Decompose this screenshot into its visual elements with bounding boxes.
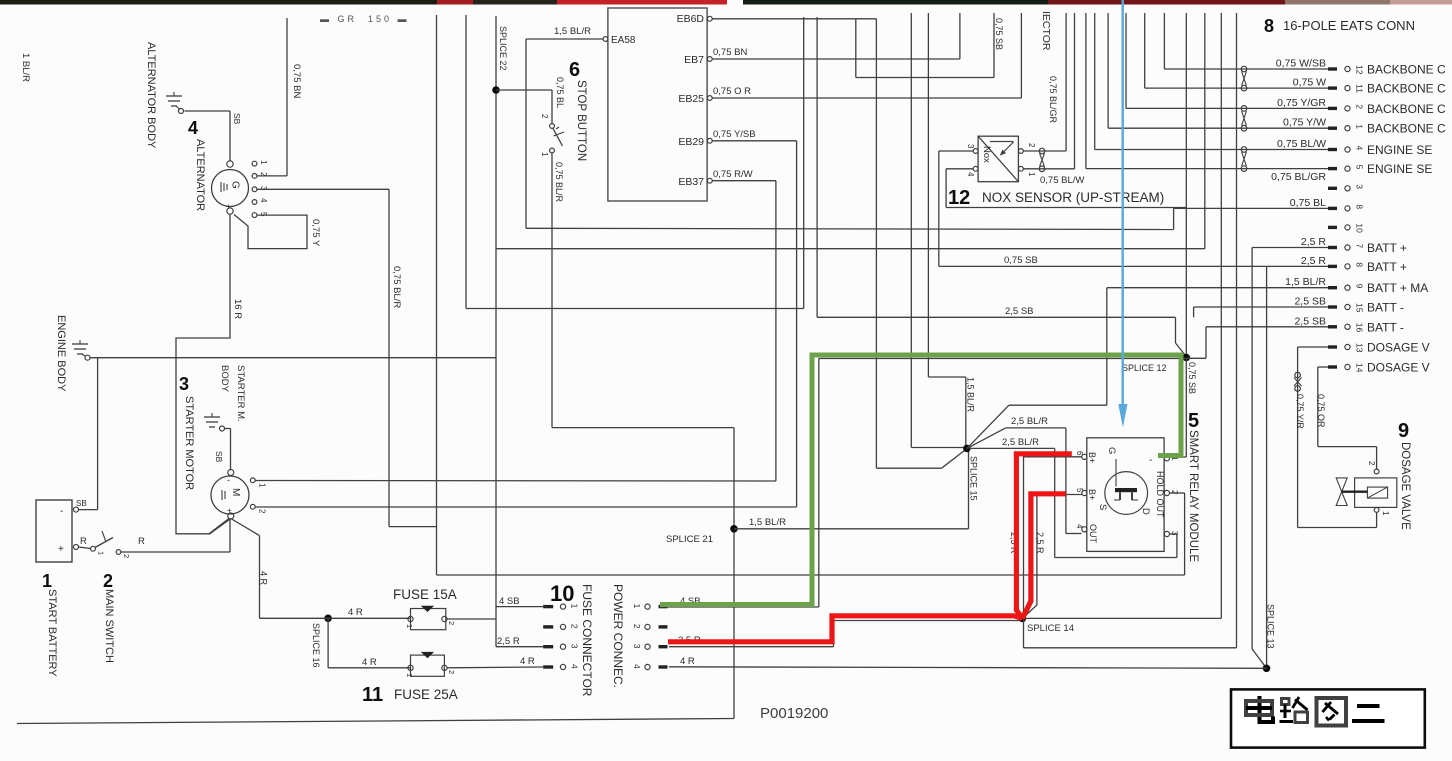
connector J8 pin 2 row [1277, 97, 1446, 116]
wire relay pin2 long return [1170, 493, 1185, 575]
wire 0,75 SB NOX pin3 route [939, 151, 1267, 266]
wire starter pin 2 to EB29 (0,75 Y/SB) [255, 506, 796, 508]
relay pin 1 - [1149, 455, 1179, 466]
svg-text:0,75 Y/W: 0,75 Y/W [1283, 117, 1326, 129]
highlight wire red from power pin3 [668, 616, 1022, 642]
wire bottom rail [17, 719, 734, 724]
svg-text:BATT -: BATT - [1367, 301, 1404, 315]
svg-text:D: D [1140, 508, 1151, 515]
svg-text:2: 2 [1367, 461, 1376, 466]
splice SPLICE 21 [666, 428, 738, 719]
wire 4 SB under green [659, 359, 1186, 608]
svg-text:8: 8 [1355, 204, 1365, 209]
svg-text:8: 8 [1264, 16, 1274, 36]
connector J8 pin 8 row [1290, 197, 1365, 211]
svg-text:3: 3 [570, 644, 580, 649]
pin EB7 [707, 57, 712, 62]
svg-text:R: R [138, 536, 145, 547]
svg-text:12: 12 [1355, 65, 1365, 75]
svg-text:BATT +: BATT + [1367, 260, 1407, 274]
svg-text:2,5 SB: 2,5 SB [1294, 315, 1326, 327]
wire 0,75 SB trunk to splice 12 [1185, 13, 1187, 356]
svg-text:EA58: EA58 [611, 35, 636, 46]
svg-text:1: 1 [570, 604, 580, 609]
svg-text:4 R: 4 R [259, 571, 269, 586]
connector J8 pin 9 row [1285, 276, 1428, 295]
wire 2,5 R pin8 to splice 13 [1267, 266, 1328, 668]
svg-text:BATT -: BATT - [1367, 320, 1404, 334]
svg-text:1: 1 [1027, 172, 1036, 177]
relay pin 6 B+ [1075, 451, 1097, 463]
svg-text:SB: SB [76, 499, 87, 508]
wire 0,75 R/W EB37 [712, 169, 776, 481]
svg-text:BATT +: BATT + [1367, 241, 1407, 255]
twisted pair rows 12-11 [1241, 66, 1247, 91]
pin EB6D [707, 16, 712, 21]
svg-text:EB29: EB29 [678, 136, 704, 148]
svg-text:16-POLE EATS CONN: 16-POLE EATS CONN [1283, 18, 1415, 33]
svg-text:2: 2 [258, 509, 267, 514]
wire fuse25 out 4 R [447, 656, 543, 668]
svg-text:2: 2 [122, 554, 131, 558]
wire 1,5 BL/R BATT+M to splice 15 [967, 288, 1329, 449]
wire 0,75 BN EB7 [712, 13, 960, 59]
svg-text:NOX SENSOR (UP-STREAM): NOX SENSOR (UP-STREAM) [982, 190, 1164, 205]
wire pin11 feed [1145, 13, 1328, 88]
svg-text:5: 5 [1075, 488, 1084, 493]
wire 0,75 BL/GR NOX pin2 up [1023, 13, 1066, 151]
starter pin 1 [250, 478, 266, 488]
svg-text:2,5 BL/R: 2,5 BL/R [1002, 437, 1039, 448]
svg-text:5: 5 [1355, 165, 1365, 170]
svg-text:1,5 BL/R: 1,5 BL/R [966, 377, 976, 413]
svg-text:S: S [1097, 504, 1108, 510]
svg-text:0,75 BN: 0,75 BN [291, 64, 302, 98]
connector J8 pin 3 row [1328, 184, 1365, 191]
svg-text:13: 13 [1355, 343, 1365, 353]
NOX pin 1 [1019, 166, 1037, 177]
switch S2 MAIN SWITCH [80, 531, 145, 663]
label 12 NOX SENSOR (UP-STREAM) [948, 187, 1164, 209]
alternator pin 4 [252, 198, 268, 204]
wire 4 R power pin4 to splice 13 [669, 656, 1267, 668]
svg-text:1: 1 [1355, 124, 1365, 129]
svg-text:2,5 BL/R: 2,5 BL/R [1011, 416, 1048, 427]
svg-text:16: 16 [1355, 323, 1365, 333]
svg-text:EB37: EB37 [678, 176, 704, 188]
wire trunk x1221 to splice 14 [1220, 13, 1222, 618]
svg-text:4: 4 [1355, 146, 1365, 151]
svg-text:0,75 BL/W: 0,75 BL/W [1277, 138, 1326, 150]
highlight wire red to relay pin5 [1022, 494, 1065, 619]
svg-text:-: - [60, 506, 63, 517]
svg-text:-: - [227, 475, 230, 485]
ground ENGINE BODY [55, 315, 90, 392]
svg-text:P0019200: P0019200 [760, 705, 828, 722]
svg-text:0,75 Y/SB: 0,75 Y/SB [713, 129, 756, 140]
svg-text:+: + [58, 544, 64, 555]
svg-text:0,75 O R: 0,75 O R [713, 86, 751, 97]
svg-text:3: 3 [1355, 184, 1365, 189]
svg-text:0,75 SB: 0,75 SB [994, 18, 1004, 50]
svg-text:12: 12 [948, 187, 970, 209]
connector J8 pin 16 row [1294, 315, 1403, 334]
connector J8 pin 5 row [1328, 162, 1432, 176]
wire 0,75 Y/R pin13 to valve [1295, 347, 1377, 528]
connector J10 label [550, 581, 625, 697]
svg-text:7: 7 [1355, 244, 1365, 249]
alternator pin 3 [252, 186, 268, 192]
svg-text:1: 1 [405, 673, 414, 677]
svg-text:5: 5 [1188, 410, 1199, 432]
relay pin 3 OUT [1164, 531, 1179, 537]
splice SPLICE 14 [1019, 615, 1074, 634]
svg-text:HOLD OUT: HOLD OUT [1155, 471, 1165, 518]
svg-text:2,5 R: 2,5 R [497, 636, 520, 647]
wire 2,5 BL/R to relay pin3 [969, 437, 1177, 558]
wire 0,75 SB splice12 to relay pin1 [1158, 358, 1197, 458]
svg-text:2: 2 [632, 624, 642, 629]
wire 2,5 SB pin16 to splice 12 [1186, 327, 1328, 359]
wire starter plus fan left [209, 519, 231, 535]
svg-text:11: 11 [1355, 84, 1365, 93]
svg-text:10: 10 [550, 581, 574, 606]
splice SPLICE 13 [1263, 604, 1276, 672]
wire 4 R splice16 to fuse15 [260, 607, 411, 618]
svg-text:2: 2 [1355, 104, 1365, 109]
svg-text:ENGINE BODY: ENGINE BODY [55, 315, 67, 392]
svg-text:FUSE 25A: FUSE 25A [394, 687, 458, 702]
top video bar (screenshot artifact) [0, 0, 1452, 5]
svg-text:10: 10 [1355, 223, 1365, 233]
alternator pin 1 [252, 160, 268, 166]
svg-text:START BATTERY: START BATTERY [46, 589, 58, 677]
twisted pair NOX [1039, 148, 1045, 171]
svg-text:0,75 OR: 0,75 OR [1316, 394, 1326, 428]
svg-text:9: 9 [1398, 420, 1409, 442]
connector J8 pin 7 row [1301, 236, 1407, 255]
wire stop button pin1 to splice 21 [552, 153, 734, 428]
svg-text:2,5 R: 2,5 R [1301, 255, 1327, 267]
wire trunk x911 to splice 15 [911, 13, 963, 448]
pin EB25 [707, 96, 712, 101]
svg-text:4: 4 [1075, 524, 1084, 529]
wire 0,75 BL/W NOX pin1 up [1023, 13, 1084, 186]
wire 2,5 R pin7 to splice 13 [1252, 248, 1328, 669]
NOX pin 3 [966, 144, 978, 153]
wire NOX pin4 under label [946, 169, 1186, 208]
wire 0,75 Y/SB EB29 [712, 129, 796, 507]
label 0,75 BL/GR vertical [1048, 76, 1058, 124]
wire 0,75 Y loop from alternator pin 5 [234, 215, 321, 249]
svg-text:4: 4 [188, 118, 198, 138]
starter pin 2 [250, 504, 266, 514]
svg-text:4: 4 [259, 198, 268, 203]
wire pin4 feed [1095, 13, 1328, 150]
highlight wire green 4 SB route [660, 355, 1181, 605]
svg-text:0,75 Y/R: 0,75 Y/R [1295, 394, 1305, 429]
svg-text:1: 1 [632, 604, 642, 609]
svg-text:0,75 W: 0,75 W [1293, 77, 1326, 89]
svg-text:EB25: EB25 [678, 93, 704, 105]
wire engine body ground to splice 22 line [91, 357, 497, 359]
wire main switch to starter motor [121, 519, 230, 553]
splice SPLICE 12 [1122, 354, 1190, 373]
wire 4 R splice16 to fuse25 [328, 618, 410, 668]
battery B1 START BATTERY [36, 500, 79, 677]
svg-text:0,75 BL/W: 0,75 BL/W [1040, 175, 1084, 186]
wire long horizontal splice22 to trunk [496, 13, 1205, 249]
wire 4 R starter plus to splice 16 [231, 519, 269, 619]
connector J8 pin 11 row [1293, 77, 1446, 96]
svg-text:DOSAGE VALVE: DOSAGE VALVE [1399, 442, 1411, 530]
splice SPLICE 22 [492, 26, 508, 94]
connector J8 16-POLE EATS label [1264, 16, 1415, 36]
svg-text:4 R: 4 R [680, 656, 695, 667]
svg-text:1: 1 [97, 551, 106, 555]
svg-text:2: 2 [1027, 143, 1036, 148]
relay pin 5 B+ [1075, 488, 1097, 500]
wire fuse15 out [447, 618, 496, 620]
svg-text:9: 9 [1355, 284, 1365, 289]
twisted pair rows 2-1 [1241, 106, 1247, 131]
connector J8 pin 8 row [1301, 255, 1407, 274]
label IECTOR vertical [1040, 11, 1052, 51]
svg-text:STARTER MOTOR: STARTER MOTOR [183, 396, 195, 490]
svg-text:ALTERNATOR BODY: ALTERNATOR BODY [145, 42, 157, 149]
svg-text:0,75 BL/R: 0,75 BL/R [554, 162, 564, 203]
svg-text:0,75 SB: 0,75 SB [1187, 362, 1197, 394]
wire splice22 to stop button pin2 [496, 90, 552, 124]
twisted pair rows 4-5 [1241, 147, 1247, 172]
wire 0,75 BN from alternator pin 2 up [257, 18, 302, 176]
connector J8 pin 10 row [1328, 223, 1365, 233]
svg-text:BACKBONE C: BACKBONE C [1367, 122, 1446, 136]
wire splice14 lower branch [1024, 618, 1237, 647]
svg-text:G: G [230, 181, 241, 189]
svg-text:BODY: BODY [219, 365, 230, 393]
svg-text:1: 1 [42, 571, 52, 591]
svg-text:3: 3 [179, 374, 189, 394]
alternator pin 2 [252, 172, 268, 178]
wire 2,5 BL/R to relay pin4 [967, 416, 1082, 534]
svg-text:EB6D: EB6D [677, 13, 705, 25]
svg-text:0,75 BL/GR: 0,75 BL/GR [1271, 171, 1326, 183]
connector J10 fuse-side pin 4 [543, 664, 579, 670]
wire trunk x1236.5 to splice 14 lower [1236, 13, 1238, 648]
pin EB37 [707, 178, 712, 183]
wire 2,5 SB trunk x817 to splice 12 [817, 17, 1186, 357]
splice SPLICE 16 [311, 615, 332, 668]
svg-text:1,5 BL/R: 1,5 BL/R [749, 517, 786, 528]
wire trunk x466 U-route [466, 15, 804, 309]
ground ALTERNATOR BODY [145, 42, 184, 149]
svg-text:BACKBONE C: BACKBONE C [1367, 82, 1446, 96]
wire splice22 trunk x496 [495, 16, 497, 647]
svg-text:SPLICE 21: SPLICE 21 [666, 534, 713, 545]
power connector pin 3 [632, 644, 668, 650]
wire pin1 feed [1108, 13, 1328, 128]
svg-text:STOP BUTTON: STOP BUTTON [575, 80, 587, 161]
relay pin 2 HOLD OUT [1155, 471, 1179, 518]
wire pin2 feed [1126, 13, 1328, 108]
wire label 1 BL/R [20, 53, 31, 82]
relay pin 4 OUT [1075, 524, 1098, 544]
label P0019200 [760, 705, 828, 722]
svg-text:-: - [1149, 455, 1152, 466]
svg-text:1: 1 [259, 160, 268, 165]
svg-text:3: 3 [632, 644, 642, 649]
starter motor M3 [179, 374, 249, 519]
wire pin5 feed [1086, 13, 1328, 169]
svg-text:SPLICE 16: SPLICE 16 [311, 623, 321, 668]
wire label SB (alternator) [232, 113, 242, 125]
wire 0,75 OR pin14 to valve [1316, 367, 1377, 469]
svg-text:2,5 SB: 2,5 SB [1294, 296, 1326, 308]
power connector pin 2 [632, 624, 668, 630]
svg-text:+: + [226, 202, 231, 211]
connector J10 fuse-side pin 3 [543, 644, 579, 650]
wire trunk x436 to relay pin2 [437, 15, 1185, 575]
svg-text:6: 6 [1075, 451, 1084, 456]
wire alternator ground to alternator [185, 111, 231, 161]
wire 2,5 R relay pin5 to splice14 [1022, 495, 1081, 619]
svg-text:4: 4 [966, 172, 975, 177]
power connector pin 4 [632, 664, 668, 670]
svg-text:SMART RELAY MODULE: SMART RELAY MODULE [1187, 430, 1199, 562]
title box Chinese [1231, 689, 1425, 747]
svg-text:2: 2 [447, 621, 456, 625]
svg-text:0,75 BL/R: 0,75 BL/R [391, 266, 402, 308]
svg-text:2: 2 [570, 624, 580, 629]
svg-text:0,75 BN: 0,75 BN [713, 47, 747, 58]
wire 1,5 BL/R trunk x928 to splice 15 [928, 13, 975, 445]
svg-text:SPLICE 12: SPLICE 12 [1122, 363, 1167, 373]
svg-text:B+: B+ [1087, 489, 1097, 500]
svg-text:Nox: Nox [981, 146, 992, 163]
svg-text:▬ GR 150 ▬: ▬ GR 150 ▬ [320, 14, 410, 24]
alternator G symbol U4 [188, 118, 249, 214]
pointer blue arrow [1118, 0, 1127, 428]
switch S6 STOP BUTTON [540, 59, 587, 203]
connector J8 pin 14 row [1328, 361, 1430, 375]
svg-text:1: 1 [258, 483, 267, 488]
wire 16 R from alternator to starter [176, 215, 243, 534]
svg-text:2,5 SB: 2,5 SB [1005, 306, 1034, 317]
connector J8 pin 12 row [1276, 58, 1446, 77]
svg-text:4 R: 4 R [362, 657, 377, 668]
svg-text:1: 1 [405, 624, 414, 628]
svg-text:SPLICE 22: SPLICE 22 [498, 26, 508, 71]
ECU box EB [608, 8, 707, 201]
svg-text:3: 3 [966, 144, 975, 149]
wire 0,75 BL to 16-pole pin 8 [1174, 208, 1329, 229]
svg-text:0,75 BL/GR: 0,75 BL/GR [1048, 76, 1058, 124]
NOX pin 4 [966, 166, 978, 177]
svg-text:2,5 R: 2,5 R [1035, 532, 1045, 554]
wire 4 SB to fuse connector pin1 [496, 596, 543, 607]
svg-text:SPLICE 13: SPLICE 13 [1266, 604, 1276, 649]
wire 0,75 OR EB25 [712, 13, 1021, 98]
svg-text:0,75 W/SB: 0,75 W/SB [1276, 58, 1326, 70]
svg-text:M: M [230, 488, 241, 496]
svg-text:SPLICE 15: SPLICE 15 [969, 456, 979, 501]
svg-text:16 R: 16 R [232, 299, 243, 319]
connector J8 pin 15 row [1294, 296, 1403, 315]
connector J8 pin 13 row [1328, 341, 1430, 355]
svg-text:STARTER M.: STARTER M. [235, 365, 246, 422]
svg-text:0,75 SB: 0,75 SB [1004, 255, 1038, 266]
svg-text:1: 1 [540, 152, 549, 157]
label 0,75 BL/GR pin5 row [1271, 171, 1326, 183]
wire 1,5 BL/R EA58 to EB box [526, 26, 1174, 230]
pin EA58 [603, 35, 636, 46]
svg-text:BATT + MA: BATT + MA [1367, 281, 1428, 295]
relay MOSFET symbol [1097, 447, 1151, 515]
svg-text:IECTOR: IECTOR [1040, 11, 1052, 51]
pin EB29 [707, 138, 712, 143]
svg-text:OUT: OUT [1088, 524, 1098, 544]
wire 2,5 R power pin3 label [678, 635, 701, 646]
svg-text:FUSE 15A: FUSE 15A [393, 587, 457, 602]
svg-text:ENGINE SE: ENGINE SE [1367, 162, 1432, 176]
wire 2,5 SB pin15 [1194, 307, 1328, 317]
svg-text:8: 8 [1355, 262, 1365, 267]
svg-text:0,75 BL: 0,75 BL [555, 77, 565, 108]
svg-text:DOSAGE V: DOSAGE V [1367, 341, 1430, 355]
connector J10 fuse-side pin 2 [543, 624, 579, 630]
svg-text:2: 2 [103, 571, 113, 591]
highlight wire red to relay pin6 [1016, 454, 1071, 619]
svg-text:DOSAGE V: DOSAGE V [1367, 361, 1430, 375]
svg-text:4 R: 4 R [520, 656, 535, 667]
wire SB battery minus riser [76, 358, 98, 510]
svg-text:3: 3 [1170, 531, 1179, 536]
svg-text:SPLICE 14: SPLICE 14 [1027, 623, 1074, 634]
relay module U5 box [1087, 410, 1199, 562]
svg-text:4 R: 4 R [348, 607, 363, 618]
svg-text:0,75 BL: 0,75 BL [1290, 197, 1326, 209]
svg-text:SB: SB [232, 113, 242, 125]
label GR 150 top [320, 14, 410, 24]
wire 4 SB power pin1 label [680, 596, 701, 607]
connector J10 fuse-side pin 1 [543, 604, 579, 610]
wire 0,75 BL/R from alternator pin 3 [257, 189, 437, 526]
svg-text:B+: B+ [1087, 452, 1097, 463]
svg-text:R: R [80, 536, 87, 547]
svg-text:2: 2 [447, 670, 456, 674]
svg-text:1,5 BL/R: 1,5 BL/R [554, 26, 591, 37]
connector J8 pin 1 row [1283, 117, 1446, 136]
wire 1,5 BL/R splice21 to splice15 [734, 449, 969, 529]
svg-text:FUSE CONNECTOR: FUSE CONNECTOR [580, 584, 594, 697]
svg-text:0,75 R/W: 0,75 R/W [713, 169, 753, 180]
svg-text:2,5 R: 2,5 R [1301, 236, 1327, 248]
svg-text:4: 4 [632, 664, 642, 669]
svg-text:BACKBONE C: BACKBONE C [1367, 102, 1446, 116]
wire 0,75 SB upper U-route [856, 13, 1004, 78]
wire splice14 to trunk [1022, 617, 1221, 619]
svg-text:4 SB: 4 SB [499, 596, 520, 607]
svg-text:1,5 BL/R: 1,5 BL/R [1285, 276, 1326, 288]
wire pin12 feed [1164, 13, 1328, 69]
connector J8 pin 4 row [1277, 138, 1432, 157]
svg-text:MAIN SWITCH: MAIN SWITCH [103, 589, 115, 663]
svg-text:6: 6 [569, 59, 580, 81]
svg-text:G: G [1106, 447, 1117, 454]
svg-text:4: 4 [570, 664, 580, 669]
wire 2,5 R under red [669, 621, 1020, 647]
